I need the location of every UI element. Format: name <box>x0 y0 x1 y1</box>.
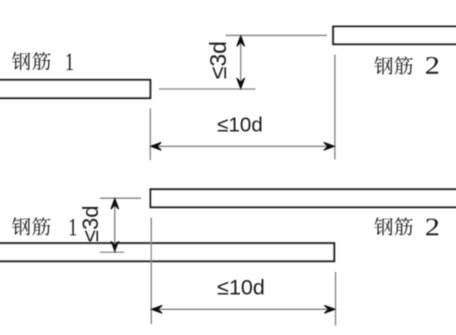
arrowhead down (bottom 3d dim) <box>111 241 119 252</box>
svg-text:≤10d: ≤10d <box>217 114 262 137</box>
extension line: axis of bar 1 (top figure) <box>159 88 256 90</box>
extension line: end of bar 1 (top figure, vertical) <box>149 109 151 161</box>
arrowhead up (bottom 3d dim) <box>111 198 119 209</box>
label "钢筋 2" (bottom figure) <box>374 218 438 236</box>
extension line: axis of bar 1 (bottom figure) <box>100 251 124 253</box>
extension line: end of bar 2 (top figure, vertical) <box>334 55 336 160</box>
arrowhead left (bottom 10d dim) <box>151 305 162 313</box>
label "钢筋 1" (bottom figure) <box>12 217 76 235</box>
dimension line <=3d vertical (top figure) <box>240 35 242 89</box>
arrowhead down (top 3d dim) <box>237 78 245 89</box>
extension line: axis of bar 2 (top figure) <box>226 34 328 36</box>
svg-text:≤10d: ≤10d <box>217 275 265 299</box>
rebar bar 1 (bottom figure, lower left) <box>0 243 334 261</box>
dimension line <=10d horizontal (bottom figure) <box>151 308 335 310</box>
rebar bar 2 (bottom figure, upper right) <box>151 189 456 207</box>
rebar bar 1 (top figure, left) <box>0 80 150 98</box>
dimension line <=10d horizontal (top figure) <box>150 145 334 147</box>
arrowhead right (bottom 10d dim) <box>324 305 335 313</box>
label "钢筋 2" (top figure) <box>374 57 438 75</box>
extension line: axis of bar 2 (bottom figure) <box>100 197 141 199</box>
extension line: end of bar 2 (bottom figure, vertical) <box>150 218 152 325</box>
extension line: end of bar 1 (bottom figure, vertical) <box>335 272 337 326</box>
arrowhead right (top 10d dim) <box>324 142 335 150</box>
arrowhead up (top 3d dim) <box>237 35 245 46</box>
svg-text:≤3d: ≤3d <box>78 206 103 243</box>
rebar bar 2 (top figure, right) <box>333 27 456 45</box>
dimension line <=3d vertical (bottom figure) <box>114 198 116 252</box>
svg-text:≤3d: ≤3d <box>205 41 231 79</box>
arrowhead left (top 10d dim) <box>150 142 161 150</box>
label "钢筋 1" (top figure) <box>12 52 73 70</box>
